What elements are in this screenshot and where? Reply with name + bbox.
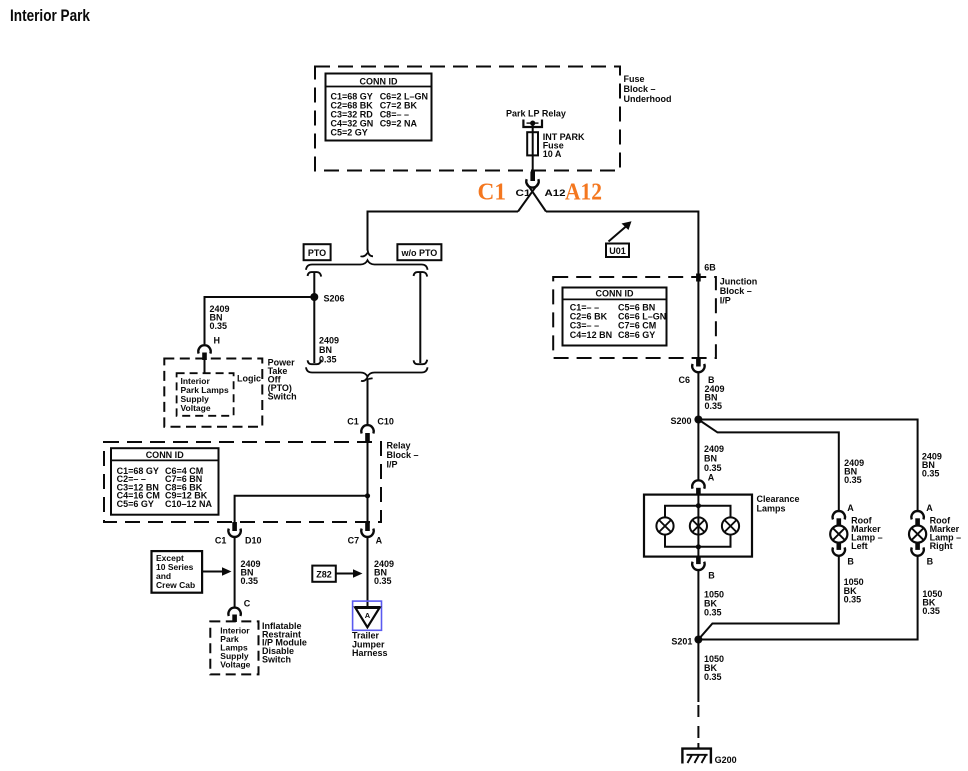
connector B pin stub (left marker) xyxy=(837,543,842,550)
wire label 1050 BK 0.35 (left marker) xyxy=(844,577,864,604)
svg-text:A: A xyxy=(376,535,383,545)
svg-text:0.35: 0.35 xyxy=(319,355,337,365)
trailer jumper harness label xyxy=(352,631,388,658)
except 10 series box xyxy=(152,551,203,593)
splice S200 xyxy=(694,416,702,424)
wire split X from connector xyxy=(518,183,546,212)
svg-text:0.35: 0.35 xyxy=(922,606,940,616)
wire left marker to S201 xyxy=(698,556,838,640)
svg-text:C1: C1 xyxy=(215,535,227,545)
junction block entry pin stub xyxy=(696,274,701,282)
relay block I/P dashed box xyxy=(104,442,381,522)
PTO switch dashed box xyxy=(164,359,262,427)
relay contact symbol xyxy=(523,120,542,128)
svg-text:0.35: 0.35 xyxy=(210,321,228,331)
wire inside relay block xyxy=(367,442,369,522)
wire C7/A down to trailer xyxy=(367,537,369,607)
wire S200 to left marker lamp xyxy=(698,420,838,511)
pin H label xyxy=(214,336,221,346)
wire label 2409 BN 0.35 (H branch) xyxy=(210,304,230,331)
option underbrace xyxy=(306,367,428,376)
lamp middle xyxy=(690,517,707,534)
relay block label xyxy=(387,441,419,470)
svg-text:Underhood: Underhood xyxy=(624,94,672,104)
svg-text:H: H xyxy=(214,336,221,346)
pin labels C1 D10 xyxy=(215,535,262,545)
wire label 2409 BN 0.35 (right marker) xyxy=(922,452,942,479)
wire S206 to H xyxy=(205,297,315,344)
svg-text:0.35: 0.35 xyxy=(705,401,723,411)
wire right horizontal xyxy=(546,212,698,278)
trailer jumper harness blue box xyxy=(353,601,382,630)
pin labels C7 A xyxy=(348,535,383,545)
pin B label (right marker) xyxy=(927,557,934,567)
svg-text:C5=2 GY: C5=2 GY xyxy=(331,128,368,138)
lamp bus top xyxy=(665,506,731,518)
6B net label xyxy=(704,262,716,272)
lamp right xyxy=(722,517,739,534)
wire label 1050 BK 0.35 (right marker) xyxy=(922,589,942,616)
wire end squiggle xyxy=(361,248,374,257)
svg-text:C1: C1 xyxy=(478,180,507,206)
svg-text:CONN ID: CONN ID xyxy=(146,450,185,460)
svg-text:PTO: PTO xyxy=(308,248,326,258)
wire branch inside relay block xyxy=(235,496,368,522)
svg-text:Switch: Switch xyxy=(268,392,297,402)
inflatable restraint switch label xyxy=(262,621,307,665)
svg-text:CONN ID: CONN ID xyxy=(596,289,635,299)
pin A label (right marker) xyxy=(926,503,933,513)
trailer triangle symbol xyxy=(355,606,380,609)
svg-text:Block –: Block – xyxy=(387,450,419,460)
connector C arc xyxy=(228,608,240,616)
fuse block underhood dashed box xyxy=(315,67,620,171)
svg-text:S200: S200 xyxy=(670,416,691,426)
fuse block conn id table xyxy=(326,74,432,141)
connector C1/D10 pin stub xyxy=(232,522,237,531)
svg-text:CONN ID: CONN ID xyxy=(360,76,399,86)
svg-text:0.35: 0.35 xyxy=(704,672,722,682)
svg-text:Left: Left xyxy=(851,541,868,551)
connector C1/A12 arc xyxy=(526,179,538,187)
svg-text:G200: G200 xyxy=(715,755,737,765)
svg-text:B: B xyxy=(927,557,934,567)
svg-text:0.35: 0.35 xyxy=(844,475,862,485)
svg-text:Switch: Switch xyxy=(262,655,291,665)
node C1/A12 labels xyxy=(478,180,603,206)
inflatable restraint module dashed box xyxy=(210,621,258,674)
PTO switch label xyxy=(268,358,297,402)
junction block I/P dashed box xyxy=(553,277,716,358)
svg-text:C5=6 GY: C5=6 GY xyxy=(117,499,154,509)
w/o PTO option box xyxy=(397,244,441,260)
wire label 2409 BN 0.35 (D10 branch) xyxy=(241,559,261,586)
connector H pin stub xyxy=(202,353,207,361)
wire clearance to S201 xyxy=(697,570,699,640)
pin C label xyxy=(244,599,251,609)
svg-text:A: A xyxy=(365,611,371,620)
wire label 1050 BK 0.35 (clearance-S201) xyxy=(704,590,724,618)
svg-text:Z82: Z82 xyxy=(316,570,332,580)
svg-text:6B: 6B xyxy=(704,262,716,272)
wire C6 to S200 xyxy=(697,372,699,419)
svg-text:C9=2 NA: C9=2 NA xyxy=(380,119,418,129)
svg-text:0.35: 0.35 xyxy=(844,594,862,604)
connector A arc (clearance) xyxy=(692,480,704,488)
wire C1/D10 down xyxy=(234,537,236,607)
svg-text:Park LP Relay: Park LP Relay xyxy=(506,109,566,119)
connector B arc (clearance) xyxy=(692,562,704,570)
pin B label (clearance) xyxy=(708,571,715,581)
lamp bus bottom xyxy=(665,535,731,547)
connector C7/A arc xyxy=(361,529,373,537)
svg-text:A12: A12 xyxy=(565,180,602,206)
connector C6/B pin stub xyxy=(696,358,701,367)
svg-text:Crew Cab: Crew Cab xyxy=(156,580,195,590)
connector C7/A pin stub xyxy=(365,522,370,531)
connector C1/D10 arc xyxy=(228,529,240,537)
wire label 2409 BN 0.35 (clearance) xyxy=(704,444,724,473)
svg-text:C1: C1 xyxy=(347,417,359,427)
logic label xyxy=(237,374,261,384)
svg-text:BN: BN xyxy=(319,345,332,355)
Z82 box xyxy=(312,566,336,582)
pin labels C6 B xyxy=(678,375,715,385)
wire option left xyxy=(313,272,315,363)
svg-text:S201: S201 xyxy=(671,637,692,647)
wire right marker to S201 xyxy=(702,556,918,640)
wire restart squiggle below underbrace xyxy=(361,378,373,382)
wire label 1050 BK 0.35 (S201-ground) xyxy=(704,654,724,682)
connector C pin stub xyxy=(232,615,237,623)
ground G200 symbol xyxy=(682,749,711,764)
pin B label (left marker) xyxy=(847,557,854,567)
svg-text:C4=12 BN: C4=12 BN xyxy=(570,330,612,340)
wire to relay block xyxy=(367,380,369,425)
relay Park LP Relay label xyxy=(506,109,566,119)
connector A pin stub (clearance) xyxy=(696,488,701,495)
svg-text:Junction: Junction xyxy=(720,276,758,286)
connector A pin stub (left marker) xyxy=(837,518,842,525)
option bottom cup left xyxy=(308,360,322,365)
connector B pin stub (clearance) xyxy=(696,557,701,565)
svg-text:10 A: 10 A xyxy=(543,149,562,159)
connector C1/A12 pin stub xyxy=(530,172,535,182)
svg-text:Relay: Relay xyxy=(387,441,411,451)
PTO switch logic inner dashed box xyxy=(177,373,234,416)
PTO option box xyxy=(304,244,331,260)
wire label 2409 BN 0.35 (trailer branch) xyxy=(374,559,394,586)
svg-text:C: C xyxy=(244,599,251,609)
pin A label (left marker) xyxy=(847,503,854,513)
wire through clearance box xyxy=(697,495,699,557)
fuse INT PARK 10A xyxy=(527,132,538,155)
connector H arc xyxy=(198,345,210,353)
svg-text:B: B xyxy=(708,571,715,581)
svg-text:Fuse: Fuse xyxy=(624,74,645,84)
wire S200 down xyxy=(697,420,699,480)
connector A arc (left marker) xyxy=(833,511,845,519)
connector B arc (right marker) xyxy=(911,547,923,555)
wire into logic box xyxy=(204,359,206,373)
option bottom cup right xyxy=(414,360,428,365)
relay block conn id table xyxy=(111,448,219,515)
connector B pin stub (right marker) xyxy=(915,543,920,550)
connector A arc (right marker) xyxy=(911,511,923,519)
svg-text:A: A xyxy=(847,503,854,513)
svg-text:A12: A12 xyxy=(545,188,566,198)
svg-text:Logic: Logic xyxy=(237,374,261,384)
wire left horizontal xyxy=(368,212,519,251)
svg-text:D10: D10 xyxy=(245,535,262,545)
svg-text:Clearance: Clearance xyxy=(757,494,800,504)
svg-text:I/P: I/P xyxy=(387,460,398,470)
svg-text:I/P: I/P xyxy=(720,295,731,305)
wire option right xyxy=(419,272,421,363)
wire dashed to ground xyxy=(697,705,699,749)
U01 box xyxy=(606,244,629,258)
connector C1/C10 pin stub xyxy=(365,433,370,443)
svg-text:A: A xyxy=(926,503,933,513)
junction block label xyxy=(720,276,758,305)
svg-text:2409: 2409 xyxy=(704,444,724,454)
wire from relay through fuse xyxy=(532,123,534,170)
svg-text:Right: Right xyxy=(930,541,953,551)
connector B arc (left marker) xyxy=(833,547,845,555)
lamp left xyxy=(656,517,673,534)
svg-text:A: A xyxy=(708,473,715,483)
junction inside relay block xyxy=(365,493,370,498)
junction block conn id table xyxy=(563,288,667,346)
pin A label (clearance) xyxy=(708,473,715,483)
svg-text:Voltage: Voltage xyxy=(220,659,250,669)
splice S206 xyxy=(310,293,318,301)
connector C6/B arc xyxy=(692,364,704,372)
wire through junction block xyxy=(697,277,699,358)
connector C1/C10 arc xyxy=(361,425,373,433)
wire S201 down xyxy=(697,640,699,703)
svg-text:C10: C10 xyxy=(377,417,394,427)
option overbrace xyxy=(306,260,428,270)
svg-text:Harness: Harness xyxy=(352,648,388,658)
svg-text:BN: BN xyxy=(704,454,717,464)
U01 arrow xyxy=(609,226,627,242)
svg-text:w/o PTO: w/o PTO xyxy=(400,248,437,258)
option stem hook left xyxy=(308,272,322,277)
pin labels C1 C10 xyxy=(347,417,394,427)
roof marker lamp right label xyxy=(930,516,962,552)
svg-text:Block –: Block – xyxy=(720,286,752,296)
svg-text:S206: S206 xyxy=(324,294,345,304)
lamp roof marker left xyxy=(830,526,847,543)
connector A pin stub (right marker) xyxy=(915,518,920,525)
option stem hook right xyxy=(414,272,428,277)
wire label 2409 BN 0.35 (C6-S200) xyxy=(705,384,725,411)
wire label 2409 BN 0.35 (left marker) xyxy=(844,458,864,485)
arrow Z82 to wire xyxy=(336,573,355,575)
title Interior Park xyxy=(10,7,91,25)
splice S201 xyxy=(694,636,702,644)
svg-text:Lamps: Lamps xyxy=(757,504,786,514)
svg-text:0.35: 0.35 xyxy=(374,576,392,586)
arrow except box to wire xyxy=(202,571,223,573)
clearance lamps box xyxy=(644,495,752,557)
wire S200 to right marker lamp xyxy=(698,420,917,511)
lamp roof marker right xyxy=(909,526,926,543)
svg-text:C7: C7 xyxy=(348,535,360,545)
svg-text:C8=6 GY: C8=6 GY xyxy=(618,330,655,340)
svg-text:Interior Park: Interior Park xyxy=(10,7,91,25)
svg-text:2409: 2409 xyxy=(319,336,339,346)
svg-text:U01: U01 xyxy=(609,246,626,256)
wire label 2409 BN 0.35 (PTO branch) xyxy=(319,336,339,365)
svg-text:0.35: 0.35 xyxy=(241,576,259,586)
svg-text:C6: C6 xyxy=(678,375,690,385)
fuse block label xyxy=(624,74,672,104)
roof marker lamp left label xyxy=(851,516,883,552)
svg-text:0.35: 0.35 xyxy=(922,469,940,479)
svg-text:C10–12 NA: C10–12 NA xyxy=(165,499,213,509)
svg-text:B: B xyxy=(847,557,854,567)
svg-text:Block –: Block – xyxy=(624,84,656,94)
svg-text:0.35: 0.35 xyxy=(704,463,722,473)
svg-text:0.35: 0.35 xyxy=(704,608,722,618)
svg-text:Voltage: Voltage xyxy=(181,403,211,413)
